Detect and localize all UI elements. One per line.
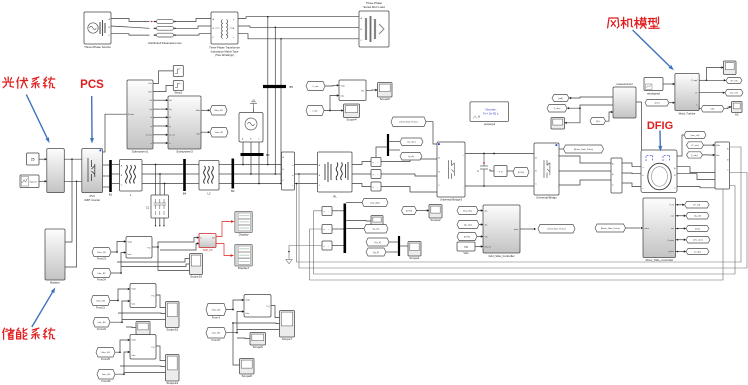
subsystem3 block: [168, 96, 201, 149]
wire bus to Ig tag: [389, 149, 400, 151]
wire branch to scope wind: [565, 108, 581, 123]
svg-text:Iabc: Iabc: [341, 96, 345, 98]
RL branch block: [318, 152, 353, 192]
svg-text:[wm]: [wm]: [655, 103, 660, 105]
svg-text:Subsystem1: Subsystem1: [132, 149, 149, 153]
svg-text:-: -: [377, 186, 378, 189]
current sensor left 1: [322, 207, 332, 216]
bus B1: [109, 160, 112, 192]
three-phase transformer: [211, 12, 238, 44]
wire bridge2 out A: [559, 156, 611, 163]
svg-text:Iabc_B5: Iabc_B5: [212, 333, 221, 335]
wire DFIG wm to tag: [677, 135, 684, 156]
svg-text:C1: C1: [146, 206, 150, 210]
svg-text:[wA]: [wA]: [558, 97, 563, 100]
wire B1-L C: [112, 183, 120, 185]
wire bus out 1: [346, 202, 362, 204]
wire sensor to bus 1: [332, 210, 344, 212]
grid side controller block: [483, 205, 520, 253]
svg-text:PV4: PV4: [90, 194, 96, 198]
goto tag [DC_abc] RSC out: [686, 237, 710, 244]
from tag DVG in: [457, 233, 477, 241]
goto tag Vabc_B2: [210, 106, 227, 116]
wire C1 tap B: [159, 174, 161, 195]
wire wm to turbine: [669, 102, 675, 104]
from tag Vg_d: [366, 238, 389, 246]
svg-text:-: -: [377, 173, 378, 176]
svg-text:Grid_Side_Controller: Grid_Side_Controller: [488, 254, 514, 258]
wire sensor1 to bridge: [381, 159, 437, 162]
wire inverter meter to Subsystem1: [103, 114, 127, 152]
wire inverter out phase 1: [103, 175, 110, 177]
svg-text:Scope12: Scope12: [166, 381, 178, 385]
wire RL to sensor1: [352, 162, 371, 165]
wire PQ to THD in1: [152, 238, 199, 247]
wire pulse to rotor bridge gate: [559, 148, 564, 150]
wire measurement to wA tag: [569, 97, 613, 98]
svg-text:[DVG]: [DVG]: [518, 172, 524, 174]
wire I_abc to PQ: [324, 96, 339, 111]
wire B4-L2 B: [186, 173, 199, 175]
svg-text:thd: thd: [212, 237, 215, 240]
svg-text:abc: abc: [485, 225, 488, 227]
wire to DFIG b: [622, 172, 641, 175]
PQ block B3: [130, 284, 156, 308]
bus B4: [183, 159, 186, 191]
svg-text:PCS: PCS: [80, 79, 104, 91]
svg-text:V_abc: V_abc: [312, 86, 319, 88]
wire DFIG stator C: [677, 187, 715, 188]
svg-text:id: id: [169, 117, 170, 119]
svg-text:PQ: PQ: [151, 347, 154, 349]
wire vertical drop phase B: [274, 27, 276, 173]
svg-text:PQ: PQ: [361, 90, 364, 92]
IGBT symbol inside inverter: [88, 158, 95, 182]
svg-text:Vabc_B1: Vabc_B1: [215, 132, 224, 134]
svg-text:[P_ref]: [P_ref]: [694, 204, 701, 207]
wire vertical drop phase C: [280, 39, 282, 183]
scope A2: [732, 102, 743, 113]
from tag I_abc: [306, 106, 324, 116]
svg-text:Vabc: Vabc: [716, 145, 720, 147]
from tag Grid_Side_Pulse: [391, 117, 426, 127]
wire measurement to DFIG: [636, 102, 642, 150]
wire feedback loop 3: [314, 186, 736, 275]
PQ block B4: [130, 335, 156, 360]
wire tag to GSC 3: [477, 236, 483, 238]
wire Vdc to GSC: [475, 246, 483, 248]
bus selector grid signals: [387, 134, 389, 156]
wire Te tag to measurement: [606, 112, 614, 121]
svg-text:wt_cos: wt_cos: [146, 134, 152, 137]
wire Iabc_B4 to PQ: [115, 352, 130, 374]
svg-text:Three-Phase Source: Three-Phase Source: [84, 45, 111, 49]
from tag Vabc_B4: [96, 348, 115, 358]
svg-text:Iabc_B3: Iabc_B3: [97, 322, 106, 324]
windspeed block: [644, 78, 663, 91]
svg-text:From24: From24: [97, 278, 106, 282]
wire Vabc_B2 to PQ: [111, 242, 126, 253]
wire tag to GSC 2: [479, 224, 483, 226]
wire tag3 to meas: [703, 154, 716, 156]
bus B2: [232, 159, 235, 189]
wire B2-meas A: [234, 164, 282, 166]
ground symbol: [250, 100, 257, 108]
svg-text:[Vg_dq0]: [Vg_dq0]: [371, 202, 380, 204]
wire PQ B4 to scope12: [156, 346, 166, 361]
step1 block: [173, 81, 183, 91]
wire ground to source: [253, 108, 255, 113]
wire subsystem1 to subsystem3: [153, 99, 168, 101]
wire C1 stub b: [159, 218, 161, 226]
wire RL to sensor3: [352, 184, 371, 187]
svg-text:25: 25: [31, 158, 35, 162]
from tag Rotor_Side_Pulse top: [564, 145, 604, 153]
wire to THD in2: [160, 244, 199, 251]
wire Iabc_B5 to PQ: [226, 312, 244, 333]
wire phase B transformer to load: [238, 26, 359, 27]
wire tag to GSC 1: [478, 210, 483, 212]
inductor block L2: [199, 161, 219, 191]
wire phase C source to line: [111, 34, 150, 35]
svg-text:[wm]: [wm]: [695, 228, 700, 230]
wire to scope5: [237, 337, 250, 340]
wire RSC out [DC_abc]: [676, 239, 687, 241]
display7 block: [235, 245, 253, 267]
wire phase A line to transformer: [174, 18, 212, 21]
svg-text:pulse: pulse: [645, 228, 650, 230]
svg-text:windspeed: windspeed: [647, 91, 660, 95]
current sensor 1: [371, 158, 381, 167]
wire subsystem1 to step: [153, 71, 173, 84]
svg-text:Iabc_B2: Iabc_B2: [97, 273, 106, 275]
from tag Ig_abc in: [457, 221, 479, 229]
wire subsystem1 to subsystem3: [153, 142, 168, 144]
wire phase C transformer to load: [238, 34, 359, 39]
svg-text:T*: T*: [696, 105, 698, 107]
wire Te to A2: [724, 107, 732, 109]
wire sensor to bus 3: [332, 245, 344, 247]
wire subsystem3 Iabc out: [201, 132, 210, 134]
svg-text:[I_abc]: [I_abc]: [554, 108, 561, 110]
svg-text:Vdc: Vdc: [485, 237, 488, 239]
svg-text:Uq: Uq: [149, 109, 151, 111]
svg-text:-: -: [328, 245, 329, 248]
svg-text:700: 700: [464, 246, 469, 249]
wire to scope10 2: [121, 264, 190, 267]
wire L2-B2 C: [219, 183, 232, 185]
three-phase series RLC load: [359, 11, 389, 47]
wire DC+ rail: [465, 153, 534, 155]
wire to scope15 3: [122, 319, 166, 321]
svg-text:[Vg_abc]: [Vg_abc]: [463, 210, 472, 212]
svg-text:Vabc: Vabc: [132, 340, 137, 342]
svg-text:PQ: PQ: [151, 296, 154, 298]
from tag Vg_abc in: [457, 207, 478, 215]
svg-text:Display: Display: [239, 233, 249, 237]
svg-text:[Vg_d]: [Vg_d]: [374, 242, 381, 244]
capacitor bank C1: [151, 195, 169, 218]
wire vertical drop phase A: [267, 17, 269, 164]
svg-text:measurement: measurement: [616, 82, 633, 86]
svg-text:Universal Bridge3: Universal Bridge3: [440, 198, 463, 202]
svg-text:P_ref: P_ref: [669, 203, 674, 206]
svg-text:Vabc: Vabc: [196, 110, 200, 112]
goto tag [I_abc] RSC out: [686, 249, 709, 255]
svg-text:Scope10: Scope10: [190, 275, 202, 279]
wire L2-B2 B: [219, 173, 232, 175]
wire C1 tap A: [155, 165, 157, 196]
wire source pin B: [250, 142, 252, 174]
svg-text:From26: From26: [102, 379, 111, 383]
from tag V_abc: [306, 82, 325, 91]
wire GSC pulse out: [520, 228, 533, 230]
svg-text:[Rotor_Side_Pulse]: [Rotor_Side_Pulse]: [601, 227, 620, 230]
wire subsystem1 to subsystem3: [153, 125, 168, 127]
svg-text:C: C: [477, 169, 479, 173]
svg-text:Vabc_B5: Vabc_B5: [212, 309, 221, 311]
from tag Rotor_Side_Pulse: [595, 224, 626, 232]
wire C1 stub a: [155, 218, 157, 226]
goto tag Ig_dq: [400, 153, 422, 161]
scope5: [250, 333, 266, 346]
svg-text:From25: From25: [101, 357, 110, 361]
wire RSC out [P_ref]: [676, 204, 685, 206]
wind turbine block: [675, 74, 699, 111]
blue arrow to PV block: [26, 95, 49, 144]
svg-text:pulse: pulse: [514, 229, 519, 231]
from tag wA: [552, 95, 569, 102]
wire subsystem1 to subsystem3: [153, 108, 168, 110]
svg-text:I_abc: I_abc: [312, 110, 319, 112]
blue arrow to PCS inverter: [90, 96, 94, 144]
from tag Iabc_B2 bottom: [92, 269, 111, 278]
svg-text:Universal Bridge: Universal Bridge: [536, 196, 557, 200]
signal builder block Signal 1: [20, 175, 39, 188]
svg-text:Three-Phase Transformer: Three-Phase Transformer: [209, 46, 240, 50]
svg-text:[Grid_Side_Pulse]: [Grid_Side_Pulse]: [400, 121, 418, 124]
wire to scope12 3: [124, 372, 166, 374]
goto tag Vabc_B1: [210, 128, 228, 138]
wire phase C line to transformer: [174, 34, 212, 35]
blue arrow to battery: [32, 288, 56, 328]
wire DC+ PV to inverter: [64, 158, 82, 160]
wire to P_ref tag: [707, 79, 727, 81]
wire meas-RL C: [295, 183, 318, 185]
universal bridge rotor side: [534, 143, 559, 195]
three-phase VI measurement block: [282, 152, 295, 190]
wire RSC out [wm]: [676, 228, 687, 230]
wire to scope10 1: [117, 259, 190, 263]
PQ block B2: [126, 237, 152, 259]
wire inverter out phase 0: [103, 164, 110, 166]
wire feedback loop 2: [299, 173, 747, 269]
inductor block L: [120, 160, 143, 192]
PV array block: [47, 149, 65, 193]
wire meas-RL B: [295, 173, 318, 175]
measurement block wind: [613, 87, 636, 118]
series RL block rotor: [611, 158, 622, 193]
wire battery - tap: [65, 181, 77, 267]
svg-text:Vabc: Vabc: [341, 85, 346, 87]
wire RL to sensor2: [352, 173, 371, 175]
wire I_abc to scope4: [330, 110, 344, 112]
goto tag Vg_dq0: [362, 199, 388, 207]
wire Vabc_B4 to PQ: [115, 340, 130, 352]
voltage measurement block: [494, 166, 507, 177]
wire phase A source to line: [111, 18, 150, 21]
wire Ig_d to bus: [386, 251, 398, 253]
svg-text:From21: From21: [96, 306, 105, 310]
wire windspeed to turbine: [663, 83, 675, 85]
svg-text:Battery: Battery: [50, 280, 60, 284]
svg-text:Scope4: Scope4: [346, 118, 357, 122]
svg-text:(Two Windings): (Two Windings): [215, 53, 234, 57]
powergui block: [470, 102, 509, 122]
wire L2-B2 A: [219, 164, 232, 166]
svg-text:Ud: Ud: [149, 100, 151, 102]
svg-text:THD_FF: THD_FF: [202, 248, 213, 252]
wire battery + tap: [65, 159, 72, 242]
wire meas-RL A: [295, 164, 318, 166]
svg-text:id: id: [150, 117, 151, 119]
scope small mid: [371, 216, 383, 226]
PCS IGBT inverter block: [82, 149, 103, 193]
svg-text:[Iq_ref]: [Iq_ref]: [694, 215, 701, 218]
goto tag DVG: [513, 168, 529, 177]
wire to scope9: [126, 326, 136, 329]
wire phase B source to line: [111, 26, 150, 28]
annotation energy storage system 储能系统: [3, 328, 55, 339]
svg-text:Step1: Step1: [174, 91, 182, 95]
wire source pin A: [242, 142, 244, 165]
red signal marker: [151, 21, 153, 23]
svg-text:[DC_abc]: [DC_abc]: [693, 240, 703, 242]
wire to DFIG c: [622, 183, 641, 187]
svg-text:wr*: wr*: [695, 91, 698, 94]
svg-text:IGBT inverter: IGBT inverter: [84, 198, 100, 202]
wire B1-L A: [112, 164, 120, 166]
wire to scope8: [233, 323, 240, 365]
wire Vabc_B3 to PQ: [110, 289, 130, 301]
wire bus out scope: [346, 220, 371, 223]
svg-text:Distributed Parameters Line: Distributed Parameters Line: [148, 41, 182, 45]
svg-text:From27: From27: [212, 338, 221, 342]
svg-text:wm: wm: [671, 228, 674, 230]
from tag DVG2: [402, 207, 417, 215]
wire turbine Pmpp out: [699, 79, 706, 81]
svg-text:Iabc: Iabc: [132, 355, 136, 357]
svg-text:[Rotor_Side_Pulse]: [Rotor_Side_Pulse]: [574, 148, 593, 151]
from tag Iabc_B3: [93, 318, 110, 328]
svg-text:Uq: Uq: [169, 109, 171, 111]
wire pulse to RSC: [626, 227, 641, 229]
svg-text:Scope8: Scope8: [242, 374, 253, 378]
svg-text:Subsystem3: Subsystem3: [176, 149, 193, 153]
svg-text:Pref: Pref: [148, 82, 152, 85]
wire sensor tap to bus: [376, 147, 387, 158]
wire bus out 2: [346, 228, 364, 230]
wire PQ to scope10 3: [158, 247, 190, 271]
wire to scope7 2: [233, 322, 280, 325]
from tag I_abc right: [687, 152, 703, 158]
DFIG asynchronous machine: [641, 150, 677, 193]
AC voltage source: [239, 113, 263, 143]
svg-text:[Grid_Side_Pulse]: [Grid_Side_Pulse]: [548, 228, 566, 231]
wire sensor2 to bridge: [381, 174, 437, 176]
wire DC- rail: [465, 185, 534, 187]
svg-text:Ts = 2e-05 s.: Ts = 2e-05 s.: [483, 111, 499, 115]
wire to scope top: [707, 68, 724, 81]
svg-text:Iabc: Iabc: [716, 155, 720, 157]
wire C1 stub c: [163, 218, 165, 226]
svg-text:Vg_abc2: Vg_abc2: [407, 142, 416, 144]
goto tag [P_ref] RSC out: [685, 202, 710, 209]
wire Vabc_B5 to PQ: [226, 300, 244, 310]
goto tag Te wide: [701, 106, 724, 113]
svg-text:Iabc_B4: Iabc_B4: [102, 374, 111, 376]
from tag Vabc_B2 bottom: [92, 248, 111, 257]
scope15: [166, 302, 180, 328]
scope1: [408, 242, 421, 257]
PQ block B5: [244, 295, 271, 318]
svg-text:Pmeter: Pmeter: [128, 113, 134, 116]
universal bridge grid side: [437, 142, 465, 197]
goto tag [wm] RSC out: [686, 226, 709, 232]
ground symbol center: [286, 257, 292, 264]
display block: [235, 212, 253, 233]
scope wind small: [551, 118, 565, 130]
svg-text:A2: A2: [735, 113, 739, 117]
svg-text:[wr_ref]: [wr_ref]: [730, 92, 738, 95]
svg-text:Scope5: Scope5: [253, 345, 264, 349]
wire RSC out [Iq_ref]: [676, 215, 687, 217]
svg-text:[Ig_d]: [Ig_d]: [373, 252, 379, 254]
scope9: [136, 322, 150, 335]
wire Vg_d to bus: [389, 241, 398, 243]
wire subsystem1 to subsystem3: [153, 134, 168, 136]
wire RSC out [I_abc]: [676, 251, 687, 253]
wire B4-L2 C: [186, 183, 199, 185]
wire turbine T out: [699, 106, 701, 109]
svg-text:Scope15: Scope15: [166, 328, 178, 332]
rotor side controller block: [643, 198, 676, 258]
from tag Iabc wind: [547, 105, 567, 113]
svg-text:RL: RL: [333, 194, 337, 198]
from tag Vabc_B3: [91, 296, 110, 306]
svg-text:Iabc: Iabc: [196, 134, 200, 136]
scope wind top: [724, 61, 737, 75]
wire pulse to bridge gate: [426, 122, 437, 144]
wire signal to PV: [39, 180, 47, 182]
red wire THD to display: [216, 222, 231, 237]
wire V_abc to PQ: [325, 84, 339, 87]
svg-text:Rotor_Side_Controller: Rotor_Side_Controller: [646, 258, 674, 262]
svg-text:Vabc: Vabc: [128, 242, 133, 244]
from tag Iabc_B5: [206, 328, 226, 339]
wire C1 tap C: [164, 184, 166, 196]
svg-text:B2: B2: [231, 189, 235, 193]
from tag Iabc_B4: [97, 370, 115, 380]
bus small scope1: [398, 236, 400, 256]
wire DVG to scope2: [417, 210, 430, 212]
wire bus to scope1: [400, 245, 408, 247]
wire sensor3 to bridge: [381, 187, 437, 193]
constant Vdc: [457, 242, 475, 251]
svg-text:B4: B4: [183, 192, 187, 196]
current sensor left 2: [322, 225, 332, 234]
wire vmeas to DVG tag: [507, 170, 513, 172]
